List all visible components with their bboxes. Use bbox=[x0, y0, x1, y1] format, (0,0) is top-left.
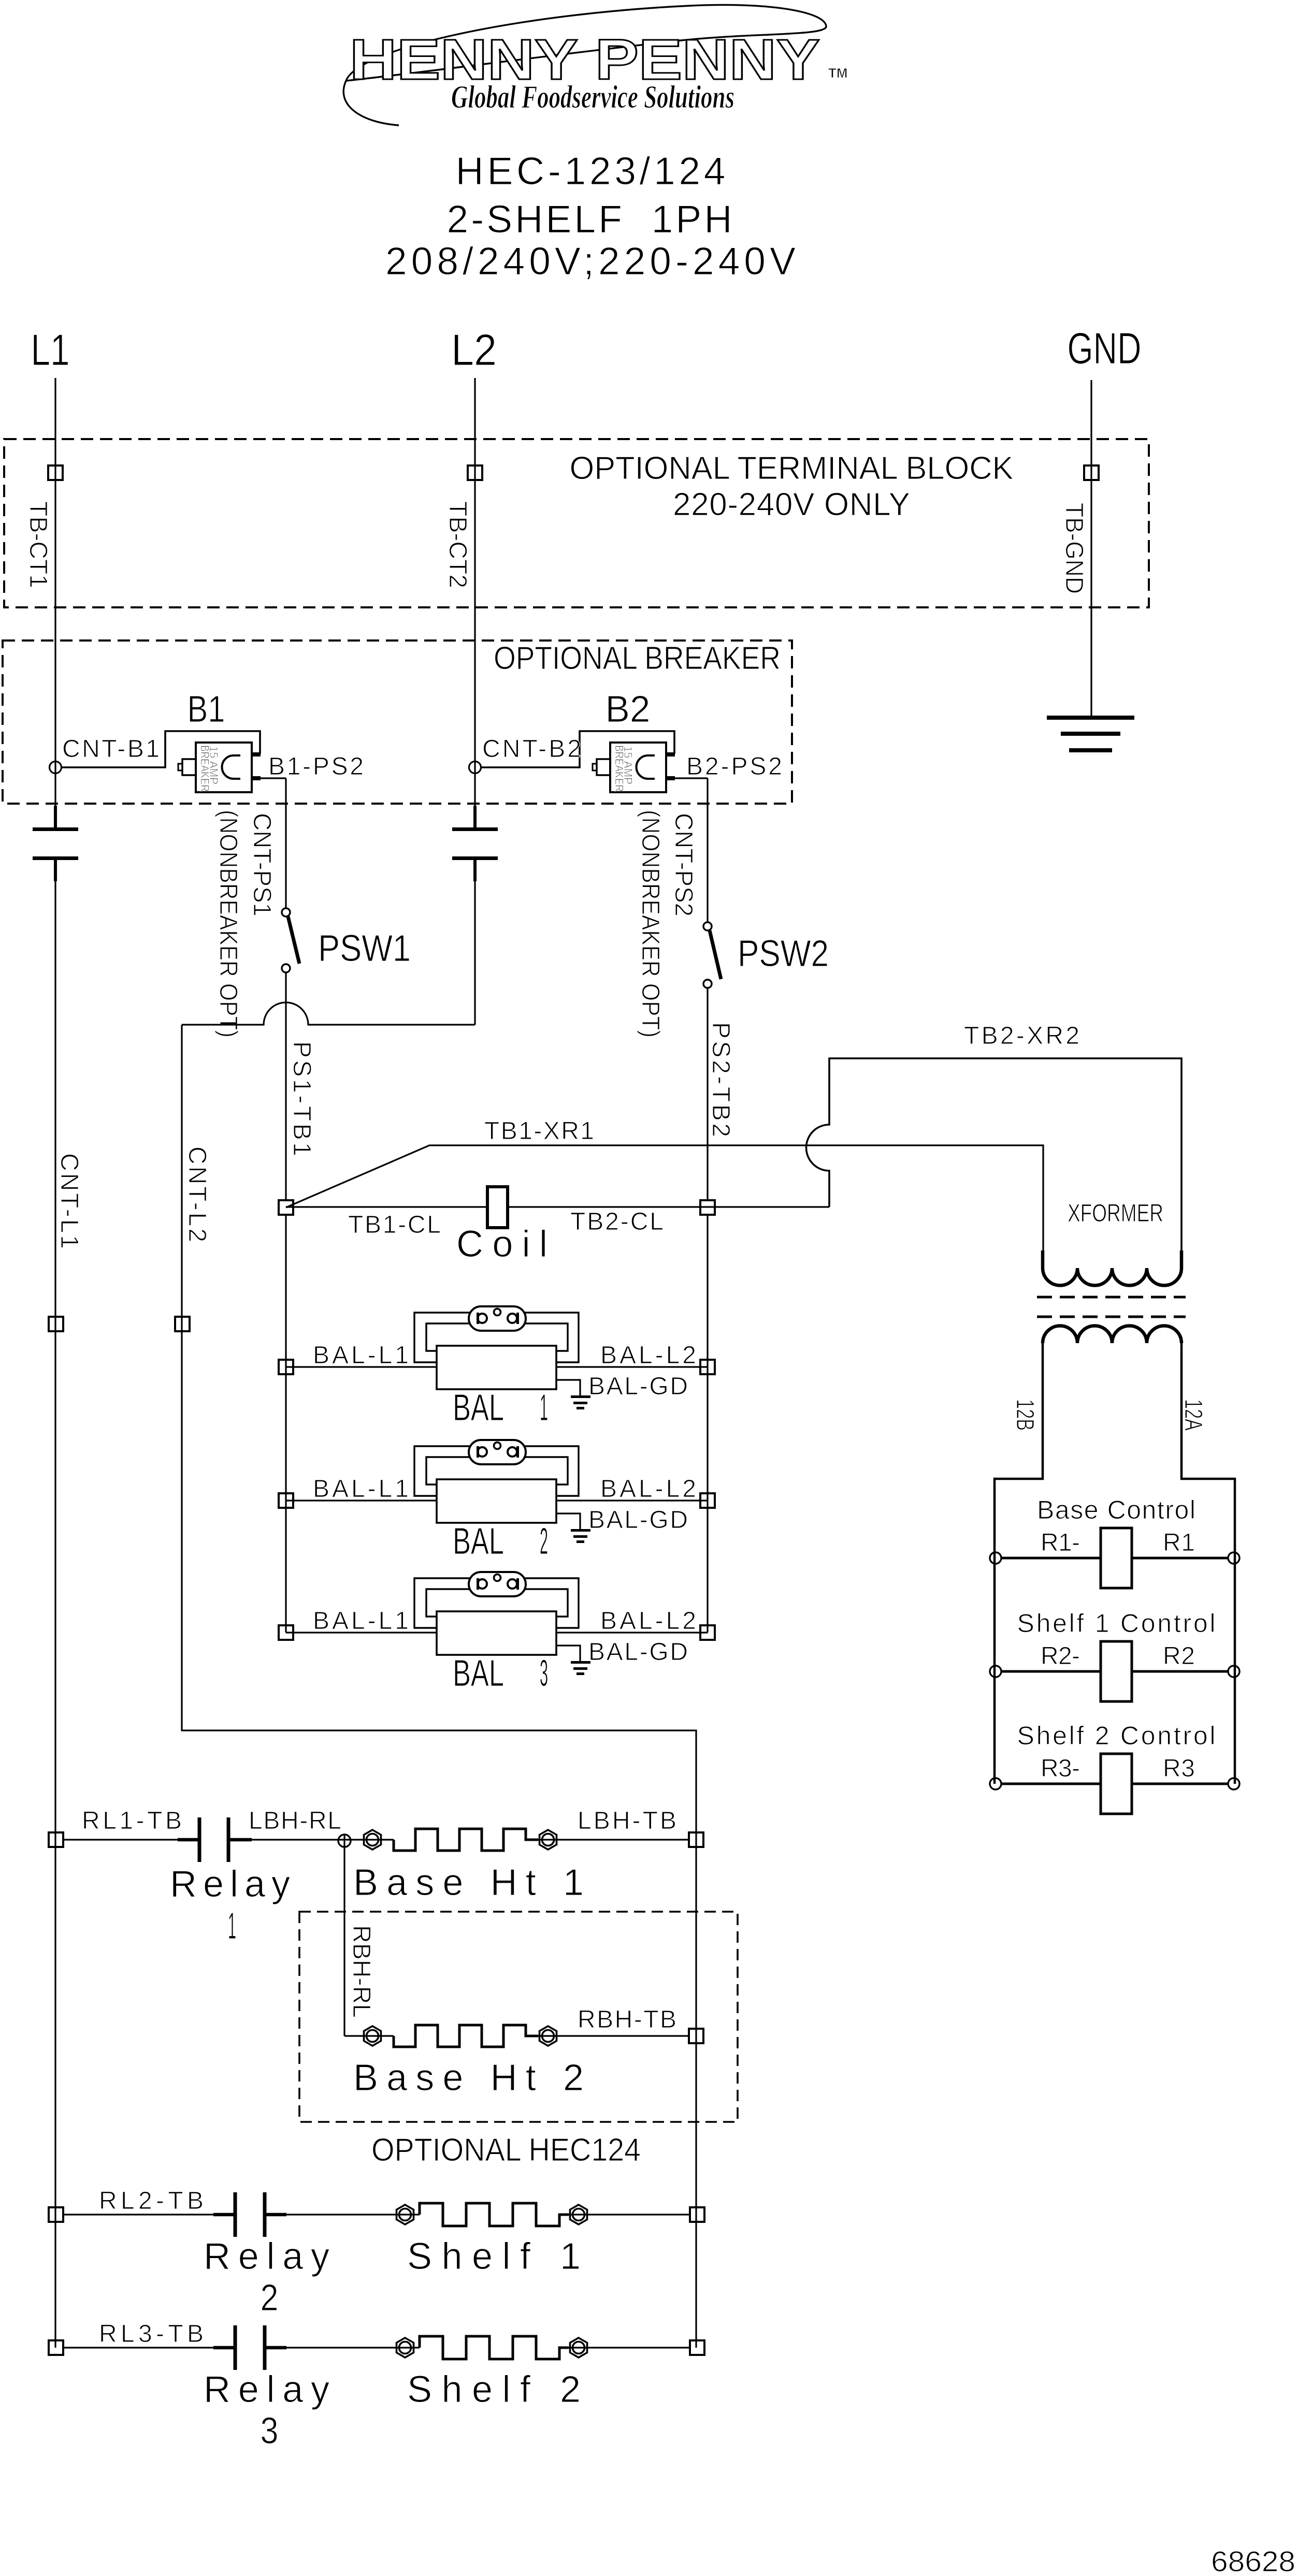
svg-text:BAL: BAL bbox=[453, 1653, 504, 1694]
svg-text:B2: B2 bbox=[606, 689, 651, 730]
svg-text:15 AMP: 15 AMP bbox=[622, 746, 635, 784]
svg-text:68628: 68628 bbox=[1211, 2545, 1295, 2573]
svg-text:(NONBREAKER OPT): (NONBREAKER OPT) bbox=[637, 810, 664, 1038]
svg-text:208/240V;220-240V: 208/240V;220-240V bbox=[385, 239, 796, 283]
svg-text:TB-CT2: TB-CT2 bbox=[444, 501, 471, 588]
svg-text:12A: 12A bbox=[1179, 1399, 1207, 1431]
svg-text:R2: R2 bbox=[1163, 1642, 1195, 1670]
svg-text:Relay: Relay bbox=[204, 2369, 329, 2410]
svg-text:3: 3 bbox=[261, 2410, 279, 2452]
svg-text:OPTIONAL HEC124: OPTIONAL HEC124 bbox=[371, 2132, 641, 2168]
svg-text:XFORMER: XFORMER bbox=[1068, 1200, 1163, 1227]
svg-text:R3: R3 bbox=[1163, 1755, 1195, 1782]
svg-text:1: 1 bbox=[540, 1387, 548, 1429]
svg-text:15 AMP: 15 AMP bbox=[207, 746, 220, 784]
svg-text:RBH-RL: RBH-RL bbox=[348, 1925, 375, 2018]
svg-text:Base Control: Base Control bbox=[1037, 1495, 1195, 1524]
svg-text:CNT-PS2: CNT-PS2 bbox=[670, 813, 697, 916]
svg-text:RL2-TB: RL2-TB bbox=[99, 2187, 204, 2215]
svg-text:2: 2 bbox=[540, 1521, 548, 1562]
svg-text:Shelf 2 Control: Shelf 2 Control bbox=[1017, 1721, 1216, 1750]
svg-text:TB1-CL: TB1-CL bbox=[348, 1211, 441, 1239]
svg-text:B1: B1 bbox=[188, 689, 225, 730]
svg-text:RL3-TB: RL3-TB bbox=[99, 2320, 204, 2348]
svg-text:2-SHELF 1PH: 2-SHELF 1PH bbox=[447, 197, 732, 241]
svg-text:L2: L2 bbox=[451, 326, 497, 375]
svg-text:TB1-XR1: TB1-XR1 bbox=[484, 1117, 594, 1145]
svg-text:PSW1: PSW1 bbox=[318, 928, 411, 969]
svg-text:L1: L1 bbox=[31, 326, 70, 375]
svg-text:(NONBREAKER OPT): (NONBREAKER OPT) bbox=[214, 810, 242, 1038]
svg-text:220-240V ONLY: 220-240V ONLY bbox=[673, 487, 910, 522]
svg-text:1: 1 bbox=[228, 1905, 236, 1947]
svg-text:TB2-CL: TB2-CL bbox=[570, 1208, 664, 1235]
svg-text:2: 2 bbox=[261, 2277, 279, 2319]
svg-text:R3-: R3- bbox=[1041, 1755, 1080, 1782]
svg-text:Shelf 1 Control: Shelf 1 Control bbox=[1017, 1609, 1216, 1638]
svg-text:TM: TM bbox=[828, 65, 848, 81]
svg-text:12B: 12B bbox=[1011, 1399, 1039, 1431]
svg-text:R1-: R1- bbox=[1041, 1529, 1080, 1556]
svg-text:R1: R1 bbox=[1163, 1529, 1195, 1556]
svg-text:R2-: R2- bbox=[1041, 1642, 1080, 1670]
svg-text:BAL: BAL bbox=[453, 1521, 504, 1562]
svg-text:PSW2: PSW2 bbox=[738, 933, 829, 974]
svg-text:OPTIONAL TERMINAL BLOCK: OPTIONAL TERMINAL BLOCK bbox=[570, 450, 1014, 486]
svg-text:3: 3 bbox=[540, 1653, 548, 1694]
svg-text:BAL-GD: BAL-GD bbox=[588, 1506, 688, 1534]
svg-text:TB-CT1: TB-CT1 bbox=[24, 501, 52, 588]
svg-text:GND: GND bbox=[1068, 324, 1142, 373]
svg-text:Global Foodservice Solutions: Global Foodservice Solutions bbox=[451, 80, 734, 115]
svg-text:TB2-XR2: TB2-XR2 bbox=[964, 1022, 1079, 1050]
svg-text:RL1-TB: RL1-TB bbox=[82, 1807, 182, 1835]
svg-text:RBH-TB: RBH-TB bbox=[578, 2006, 676, 2033]
svg-text:Relay: Relay bbox=[170, 1864, 290, 1905]
svg-text:BAL-GD: BAL-GD bbox=[588, 1638, 688, 1666]
svg-text:Relay: Relay bbox=[204, 2236, 329, 2277]
svg-text:OPTIONAL BREAKER: OPTIONAL BREAKER bbox=[494, 641, 781, 676]
svg-text:BAL-GD: BAL-GD bbox=[588, 1373, 688, 1400]
svg-text:B1-PS2: B1-PS2 bbox=[268, 753, 364, 780]
svg-text:CNT-PS1: CNT-PS1 bbox=[248, 813, 276, 916]
svg-text:BAL: BAL bbox=[453, 1387, 504, 1429]
svg-text:HEC-123/124: HEC-123/124 bbox=[456, 149, 726, 193]
svg-text:TB-GND: TB-GND bbox=[1060, 503, 1088, 594]
